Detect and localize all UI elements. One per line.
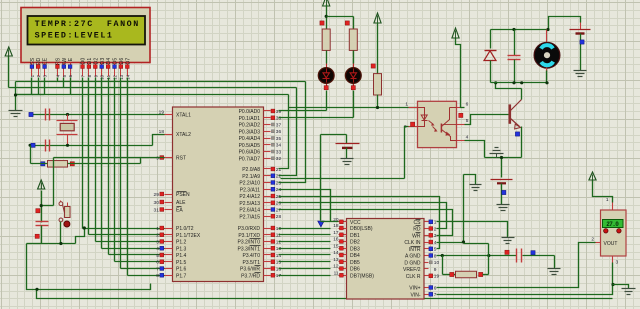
- svg-text:P0.1/AD1: P0.1/AD1: [239, 116, 261, 122]
- svg-text:PSEN: PSEN: [176, 192, 190, 198]
- svg-text:29: 29: [154, 192, 160, 198]
- svg-text:P0.2/AD2: P0.2/AD2: [239, 123, 261, 129]
- svg-text:10: 10: [434, 260, 440, 266]
- svg-text:P3.4/T0: P3.4/T0: [242, 253, 260, 259]
- svg-text:4: 4: [466, 134, 469, 140]
- svg-text:P3.0/RXD: P3.0/RXD: [238, 226, 261, 232]
- svg-text:P3.6/WR: P3.6/WR: [240, 267, 260, 273]
- svg-text:15: 15: [333, 243, 339, 249]
- svg-text:P0.7/AD7: P0.7/AD7: [239, 156, 261, 162]
- svg-text:P0.0/AD0: P0.0/AD0: [239, 109, 261, 115]
- svg-text:DB7(MSB): DB7(MSB): [350, 273, 374, 279]
- svg-text:16: 16: [333, 237, 339, 243]
- svg-text:SPEED:LEVEL1: SPEED:LEVEL1: [35, 30, 114, 40]
- svg-text:9: 9: [434, 267, 437, 273]
- svg-text:P1.7: P1.7: [176, 273, 187, 279]
- svg-text:RS: RS: [56, 57, 62, 65]
- svg-text:VREF/2: VREF/2: [403, 267, 421, 273]
- svg-text:4: 4: [156, 246, 159, 252]
- svg-text:P1.4: P1.4: [176, 253, 187, 259]
- svg-text:P2.4/A12: P2.4/A12: [239, 194, 260, 200]
- svg-text:CLK R: CLK R: [406, 274, 421, 280]
- svg-text:1: 1: [606, 197, 609, 203]
- svg-text:P0.3/AD3: P0.3/AD3: [239, 129, 261, 135]
- svg-text:WR: WR: [412, 233, 421, 239]
- svg-text:CS: CS: [414, 220, 422, 226]
- svg-text:A GND: A GND: [405, 254, 421, 260]
- svg-text:D5: D5: [113, 58, 119, 65]
- svg-text:DB3: DB3: [350, 246, 360, 252]
- svg-text:P2.1/A9: P2.1/A9: [242, 174, 260, 180]
- svg-text:DB4: DB4: [350, 253, 360, 259]
- svg-text:1: 1: [156, 226, 159, 232]
- svg-text:3: 3: [156, 239, 159, 245]
- svg-text:XTAL2: XTAL2: [176, 132, 191, 138]
- svg-text:14: 14: [333, 250, 339, 256]
- svg-text:VIN-: VIN-: [411, 292, 421, 298]
- svg-text:8: 8: [156, 273, 159, 279]
- svg-text:INTR: INTR: [409, 247, 421, 253]
- svg-text:36: 36: [276, 129, 282, 135]
- svg-text:P1.5: P1.5: [176, 260, 187, 266]
- svg-text:P0.4/AD4: P0.4/AD4: [239, 136, 261, 142]
- svg-text:DB0(LSB): DB0(LSB): [350, 226, 373, 232]
- svg-text:5: 5: [434, 247, 437, 253]
- svg-text:11: 11: [276, 233, 281, 239]
- svg-text:2: 2: [156, 233, 159, 239]
- svg-text:17: 17: [333, 230, 339, 236]
- svg-text:4: 4: [434, 240, 437, 246]
- svg-text:31: 31: [154, 207, 160, 213]
- svg-text:23: 23: [276, 180, 282, 186]
- svg-text:P3.1/TXD: P3.1/TXD: [238, 233, 260, 239]
- svg-text:9: 9: [156, 155, 159, 161]
- svg-text:P2.7/A15: P2.7/A15: [239, 214, 260, 220]
- svg-text:28: 28: [276, 214, 282, 220]
- svg-text:10: 10: [100, 74, 105, 79]
- svg-text:20: 20: [333, 217, 339, 223]
- svg-text:6: 6: [434, 285, 437, 291]
- svg-text:32: 32: [276, 156, 282, 162]
- svg-text:P2.0/A8: P2.0/A8: [242, 167, 260, 173]
- svg-text:13: 13: [119, 74, 124, 79]
- svg-text:8: 8: [434, 253, 437, 259]
- svg-text:12: 12: [333, 264, 339, 270]
- svg-text:VCC: VCC: [350, 220, 361, 226]
- svg-text:XTAL1: XTAL1: [176, 113, 191, 119]
- svg-text:P3.3/INT1: P3.3/INT1: [237, 246, 260, 252]
- svg-text:TEMPR:27C FANON: TEMPR:27C FANON: [35, 19, 140, 29]
- svg-text:P0.6/AD6: P0.6/AD6: [239, 150, 261, 156]
- svg-text:DB5: DB5: [350, 260, 360, 266]
- svg-text:P1.0/T2: P1.0/T2: [176, 226, 194, 232]
- svg-text:D2: D2: [93, 58, 99, 65]
- svg-text:1: 1: [405, 102, 408, 108]
- svg-text:35: 35: [276, 136, 282, 142]
- svg-text:3: 3: [434, 233, 437, 239]
- svg-text:38: 38: [276, 116, 282, 122]
- svg-text:VOUT: VOUT: [604, 241, 618, 247]
- svg-text:DB2: DB2: [350, 240, 360, 246]
- svg-text:7: 7: [434, 292, 437, 298]
- svg-text:D1: D1: [87, 58, 93, 65]
- svg-text:2: 2: [591, 237, 594, 243]
- svg-text:D6: D6: [119, 58, 125, 65]
- svg-text:D GND: D GND: [404, 260, 421, 266]
- svg-text:21: 21: [276, 167, 282, 173]
- svg-text:DB6: DB6: [350, 267, 360, 273]
- svg-text:D0: D0: [81, 58, 87, 65]
- svg-text:7: 7: [156, 266, 159, 272]
- svg-text:D4: D4: [106, 58, 112, 65]
- svg-text:26: 26: [276, 201, 282, 207]
- svg-text:ALE: ALE: [176, 200, 186, 206]
- svg-text:39: 39: [276, 109, 282, 115]
- svg-text:D7: D7: [125, 58, 131, 65]
- svg-text:RST: RST: [176, 156, 186, 162]
- svg-text:P1.1/T2EX: P1.1/T2EX: [176, 233, 201, 239]
- svg-text:27.0: 27.0: [606, 221, 619, 228]
- svg-text:P3.2/INT0: P3.2/INT0: [237, 240, 260, 246]
- svg-text:RD: RD: [413, 227, 421, 233]
- svg-text:P2.5/A13: P2.5/A13: [239, 201, 260, 207]
- svg-text:34: 34: [276, 143, 282, 149]
- svg-text:2: 2: [434, 226, 437, 232]
- svg-text:P0.5/AD5: P0.5/AD5: [239, 143, 261, 149]
- svg-text:19: 19: [434, 274, 440, 280]
- svg-text:P3.5/T1: P3.5/T1: [242, 260, 260, 266]
- svg-text:13: 13: [333, 257, 339, 263]
- svg-text:P1.3: P1.3: [176, 246, 187, 252]
- svg-text:16: 16: [276, 266, 282, 272]
- svg-text:14: 14: [276, 253, 282, 259]
- svg-text:D3: D3: [100, 58, 106, 65]
- svg-text:5: 5: [466, 118, 469, 124]
- svg-text:12: 12: [276, 239, 282, 245]
- svg-text:6: 6: [466, 102, 469, 108]
- svg-text:CLK IN: CLK IN: [404, 240, 421, 246]
- svg-text:3: 3: [616, 260, 619, 266]
- svg-text:6: 6: [156, 260, 159, 266]
- svg-text:EA: EA: [176, 208, 183, 214]
- svg-text:VIN+: VIN+: [409, 286, 420, 292]
- svg-text:33: 33: [276, 149, 282, 155]
- svg-text:P2.2/A10: P2.2/A10: [239, 181, 260, 187]
- svg-text:P1.2: P1.2: [176, 240, 187, 246]
- svg-text:P2.6/A14: P2.6/A14: [239, 208, 260, 214]
- svg-text:1: 1: [434, 220, 437, 226]
- svg-text:DB1: DB1: [350, 233, 360, 239]
- svg-text:37: 37: [276, 122, 282, 128]
- svg-text:27: 27: [276, 207, 282, 213]
- svg-text:15: 15: [276, 260, 282, 266]
- svg-text:P1.6: P1.6: [176, 267, 187, 273]
- svg-text:11: 11: [334, 270, 339, 276]
- svg-text:5: 5: [156, 253, 159, 259]
- svg-text:P2.3/A11: P2.3/A11: [240, 187, 260, 193]
- svg-text:P3.7/RD: P3.7/RD: [241, 273, 260, 279]
- svg-text:E: E: [68, 57, 74, 61]
- svg-text:30: 30: [154, 200, 160, 206]
- svg-text:18: 18: [333, 223, 339, 229]
